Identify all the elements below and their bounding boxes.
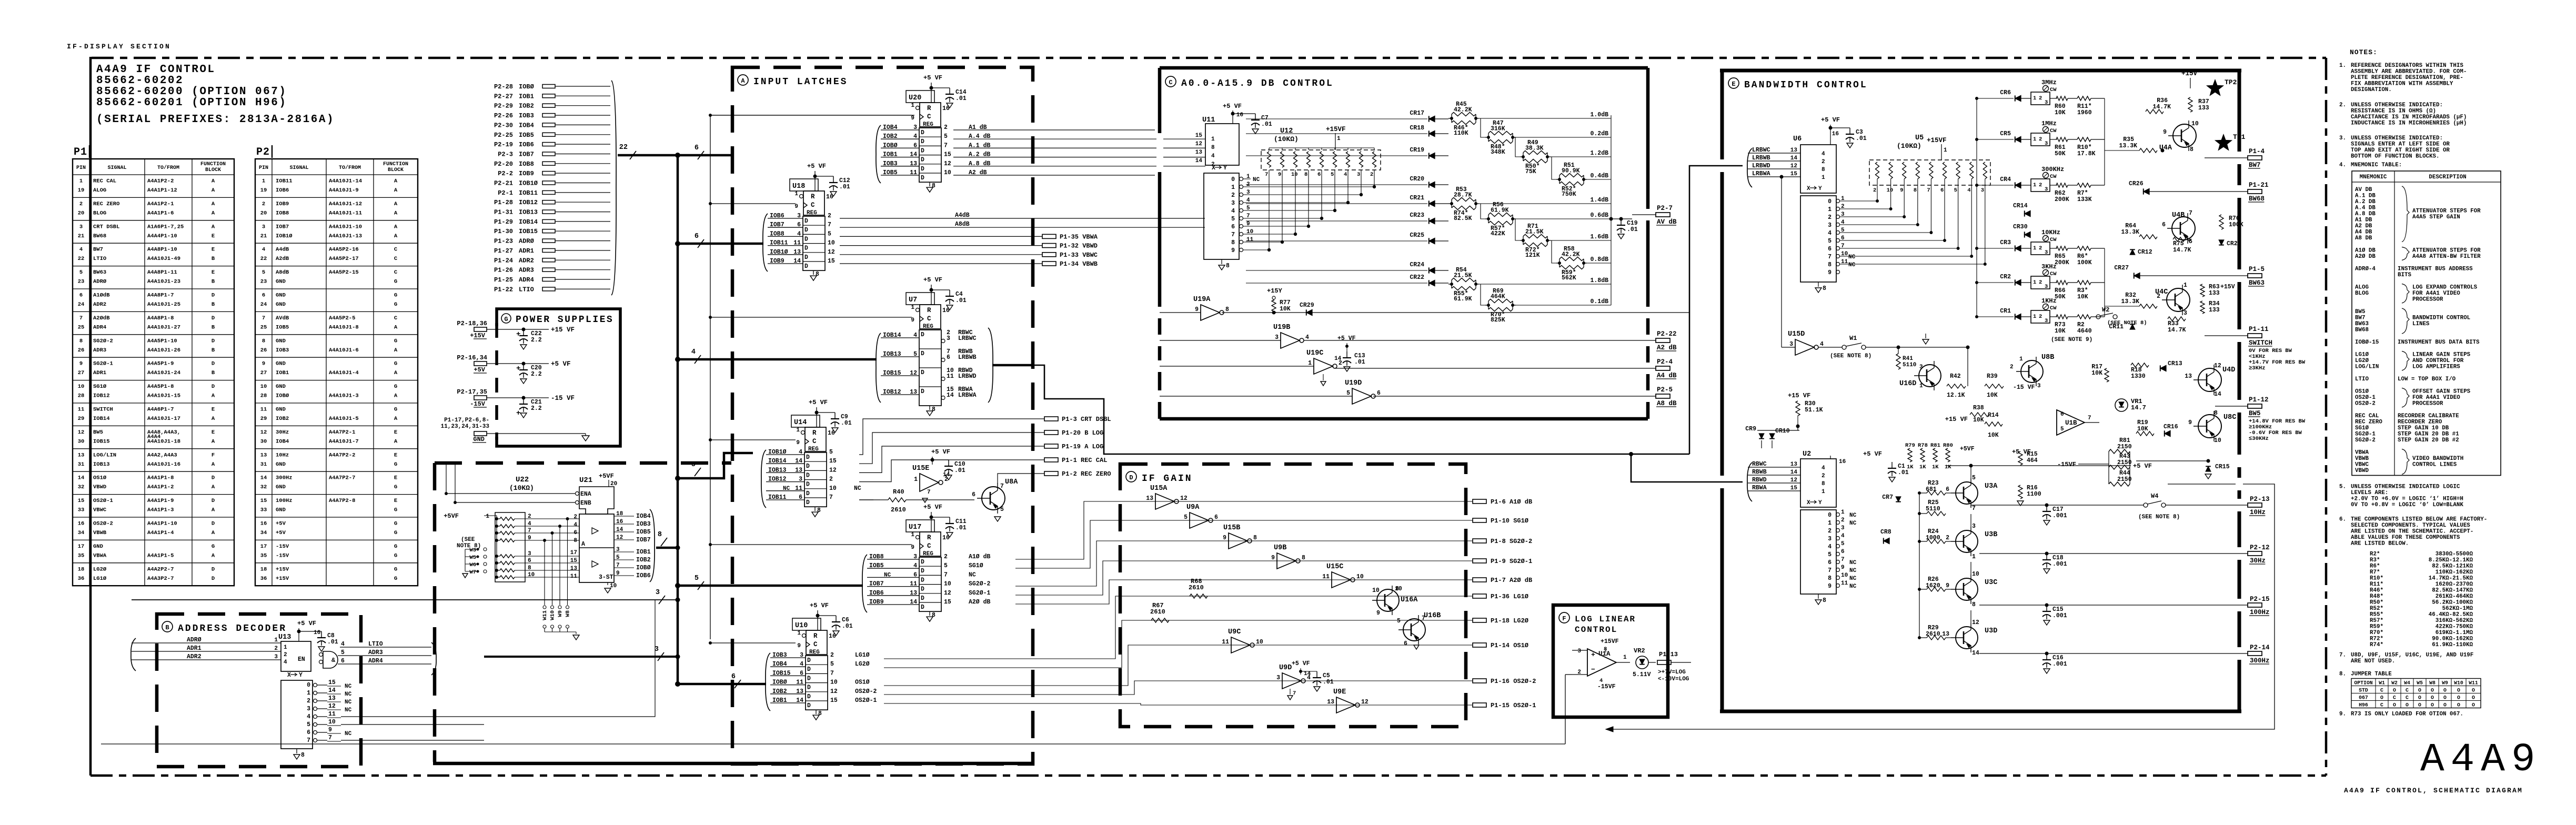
svg-text:5: 5: [1828, 551, 1832, 558]
output stub P1-20 B LOG: [1044, 430, 1058, 435]
svg-text:P2-30: P2-30: [494, 122, 513, 129]
svg-text:4: 4: [799, 449, 802, 456]
svg-text:0.2dB: 0.2dB: [1590, 130, 1608, 137]
svg-text:G: G: [394, 461, 397, 468]
svg-text:10K: 10K: [2055, 109, 2066, 116]
svg-text:0: 0: [307, 682, 310, 689]
svg-text:O: O: [2431, 688, 2434, 693]
svg-text:1.4dB: 1.4dB: [1590, 197, 1608, 204]
svg-text:IOB4: IOB4: [883, 124, 898, 131]
svg-text:R3*: R3*: [2370, 557, 2380, 564]
svg-text:5: 5: [830, 661, 834, 668]
svg-text:300KHz: 300KHz: [2041, 166, 2064, 173]
svg-text:3: 3: [1972, 523, 1976, 530]
svg-text:A4A1P1-2: A4A1P1-2: [147, 484, 174, 490]
svg-text:R55*: R55*: [2370, 612, 2383, 618]
svg-text:IOB12: IOB12: [519, 199, 538, 206]
svg-text:17: 17: [260, 544, 267, 550]
svg-text:A4A5P2-17: A4A5P2-17: [329, 256, 359, 262]
svg-text:15: 15: [78, 498, 85, 504]
svg-text:13: 13: [793, 249, 801, 256]
svg-text:U19A: U19A: [1193, 296, 1211, 304]
svg-text:U19B: U19B: [1273, 324, 1290, 331]
svg-text:P1-2 REC ZERO: P1-2 REC ZERO: [1062, 470, 1111, 478]
svg-text:1: 1: [1944, 147, 1947, 154]
svg-text:1960: 1960: [2077, 109, 2092, 116]
svg-text:7: 7: [1231, 232, 1235, 238]
svg-text:4: 4: [1344, 172, 1347, 178]
svg-text:12: 12: [260, 429, 267, 436]
svg-text:35: 35: [78, 552, 85, 559]
svg-text:VBWB: VBWB: [2355, 456, 2369, 462]
svg-text:G: G: [394, 507, 397, 514]
svg-text:11: 11: [947, 373, 954, 380]
U3 collector rails: [1970, 466, 1971, 478]
svg-text:1: 1: [2033, 314, 2036, 320]
svg-text:CR1: CR1: [2000, 308, 2011, 315]
svg-text:BW68: BW68: [2249, 195, 2265, 203]
svg-text:ARE LISTED ON THE SCHEMATIC. A: ARE LISTED ON THE SCHEMATIC. ACCEPT-: [2351, 529, 2473, 535]
svg-text:CR13: CR13: [2168, 360, 2182, 367]
svg-text:4: 4: [913, 562, 917, 569]
svg-text:5: 5: [1397, 618, 1401, 625]
svg-text:P1-27: P1-27: [494, 247, 513, 255]
svg-text:ADRØ: ADRØ: [519, 238, 534, 245]
svg-text:U20: U20: [909, 94, 921, 102]
svg-text:G: G: [394, 338, 397, 344]
svg-text:ALOG: ALOG: [2355, 285, 2369, 291]
svg-text:16: 16: [314, 630, 320, 636]
svg-text:W5: W5: [469, 555, 476, 561]
svg-text:15: 15: [944, 152, 951, 158]
function block A INPUT LATCHES dashed box: [732, 67, 1033, 764]
resistor R37: [2188, 97, 2192, 112]
svg-text:GND: GND: [276, 384, 286, 390]
svg-text:CR21: CR21: [1410, 195, 1424, 202]
svg-text:CR9: CR9: [1745, 426, 1756, 432]
svg-text:SG2Ø-1: SG2Ø-1: [2355, 431, 2376, 438]
inverter U15D: [1795, 339, 1814, 355]
svg-text:IOB12: IOB12: [93, 393, 110, 399]
svg-text:P2-19: P2-19: [494, 141, 513, 148]
svg-text:ADR4: ADR4: [368, 658, 383, 665]
svg-text:P1-15 OS2Ø-1: P1-15 OS2Ø-1: [1491, 702, 1536, 709]
svg-text:4: 4: [307, 713, 310, 720]
svg-text:U5: U5: [1915, 134, 1924, 142]
svg-text:NC: NC: [345, 691, 352, 698]
bus 22 wire: [618, 154, 678, 157]
svg-text:IOB11: IOB11: [770, 240, 788, 247]
svg-text:P1-21: P1-21: [2249, 182, 2269, 189]
svg-text:LG1Ø: LG1Ø: [2355, 352, 2369, 358]
svg-text:G: G: [394, 530, 397, 536]
svg-text:U9A: U9A: [1186, 504, 1200, 511]
svg-text:6: 6: [341, 658, 345, 665]
svg-text:Y: Y: [299, 672, 303, 679]
svg-text:G: G: [394, 552, 397, 559]
svg-text:SWITCH: SWITCH: [93, 407, 113, 413]
svg-text:3-ST: 3-ST: [599, 574, 613, 581]
section E title circle: [1728, 78, 1739, 88]
svg-text:D: D: [921, 577, 924, 583]
svg-text:6: 6: [528, 558, 531, 564]
svg-text:+15V: +15V: [2220, 284, 2235, 290]
svg-text:2610: 2610: [1150, 608, 1165, 616]
svg-text:CR7: CR7: [1882, 494, 1893, 501]
resistor R63: [2200, 284, 2205, 297]
svg-text:O: O: [2472, 695, 2475, 701]
svg-text:P1-13: P1-13: [1659, 651, 1678, 658]
svg-text:D: D: [212, 566, 215, 572]
svg-text:CR20: CR20: [1410, 176, 1424, 183]
svg-text:5: 5: [695, 575, 699, 582]
IF GAIN wire P1-10 SG1Ø: [1015, 520, 1473, 568]
svg-text:IOB11: IOB11: [276, 178, 293, 185]
svg-text:8: 8: [1395, 586, 1399, 592]
svg-text:LOG/LIN: LOG/LIN: [2355, 364, 2379, 370]
svg-text:+5VF: +5VF: [1960, 446, 1975, 452]
svg-text:IOBØ: IOBØ: [276, 393, 289, 399]
svg-text:A4A10J1-3: A4A10J1-3: [329, 393, 359, 399]
svg-text:D: D: [212, 315, 215, 321]
svg-text:P1-4: P1-4: [2249, 148, 2265, 155]
svg-text:REC CAL: REC CAL: [93, 178, 116, 185]
svg-text:BW63: BW63: [93, 269, 106, 276]
svg-text:464: 464: [2027, 457, 2038, 464]
svg-text:CW: CW: [2050, 237, 2057, 243]
svg-text:14: 14: [1304, 671, 1311, 677]
svg-text:3: 3: [1919, 364, 1923, 370]
svg-text:AV dB: AV dB: [1657, 218, 1677, 226]
inverter U9B: [1277, 553, 1296, 569]
svg-text:25: 25: [78, 324, 85, 330]
svg-text:CR5: CR5: [2000, 130, 2011, 137]
bus U21 to vertical bus 8: [656, 547, 678, 549]
latch U18 with cap C12: [790, 179, 818, 191]
svg-text:C: C: [2406, 695, 2409, 701]
svg-text:REG: REG: [923, 324, 933, 330]
svg-text:C: C: [2406, 688, 2409, 693]
svg-text:A: A: [394, 324, 398, 330]
svg-text:UNLESS OTHERWISE INDICATED:: UNLESS OTHERWISE INDICATED:: [2351, 135, 2443, 142]
svg-text:1: 1: [1623, 655, 1627, 661]
svg-text:13: 13: [1942, 631, 1949, 638]
svg-text:7: 7: [307, 737, 310, 744]
svg-text:.01: .01: [1856, 135, 1867, 142]
svg-text:IOB9: IOB9: [869, 599, 884, 606]
svg-text:IOB14: IOB14: [93, 416, 110, 422]
svg-text:A.2 DB: A.2 DB: [2355, 199, 2376, 205]
svg-text:REC ZERO: REC ZERO: [2355, 419, 2382, 426]
svg-text:IOB7: IOB7: [519, 151, 534, 158]
svg-text:BW68: BW68: [93, 233, 106, 239]
svg-text:13: 13: [1327, 699, 1334, 706]
svg-text:G: G: [394, 361, 397, 367]
svg-text:A1Ø DB: A1Ø DB: [2355, 248, 2376, 254]
svg-text:2.: 2.: [2339, 102, 2346, 108]
svg-text:P1-1 REC CAL: P1-1 REC CAL: [1062, 457, 1107, 464]
svg-text:13: 13: [910, 160, 917, 167]
svg-text:7: 7: [328, 735, 332, 741]
svg-text:133: 133: [2209, 307, 2220, 314]
svg-text:7: 7: [1841, 557, 1845, 563]
svg-text:NC: NC: [1849, 583, 1857, 590]
svg-text:31: 31: [260, 461, 267, 468]
svg-text:1: 1: [1211, 136, 1215, 143]
zener VR1: [2115, 399, 2128, 411]
svg-text:1.6dB: 1.6dB: [1590, 234, 1608, 240]
svg-text:R81: R81: [1930, 442, 1940, 449]
svg-text:OS2Ø-1: OS2Ø-1: [855, 697, 877, 704]
outer dashed border top: [92, 57, 2326, 59]
svg-text:5: 5: [1972, 475, 1976, 481]
svg-text:LRBWC: LRBWC: [1752, 147, 1770, 154]
svg-text:6: 6: [1940, 187, 1944, 194]
svg-text:14: 14: [795, 458, 802, 465]
svg-text:O: O: [2418, 695, 2421, 701]
svg-text:16: 16: [942, 105, 950, 112]
svg-text:IOB15: IOB15: [772, 670, 791, 677]
inverter U9D: [1282, 673, 1301, 689]
svg-text:1: 1: [2033, 279, 2036, 286]
svg-text:BANDWIDTH CONTROL: BANDWIDTH CONTROL: [2412, 315, 2470, 321]
svg-text:23: 23: [260, 279, 267, 285]
inverter U9E: [1336, 697, 1355, 713]
resistor network U22 resistors: [500, 517, 515, 520]
svg-text:8: 8: [1226, 263, 1230, 269]
svg-text:82.5K: 82.5K: [1454, 215, 1472, 222]
cap C19: [1611, 218, 1632, 219]
svg-text:STD: STD: [2359, 688, 2368, 693]
svg-text:+5V: +5V: [474, 366, 485, 374]
svg-text:61.9KΩ-110KΩ: 61.9KΩ-110KΩ: [2432, 642, 2473, 648]
svg-text:562K: 562K: [1562, 275, 1576, 281]
svg-text:D: D: [1129, 474, 1133, 481]
svg-text:2: 2: [828, 213, 831, 219]
svg-text:P1-30: P1-30: [494, 228, 513, 235]
svg-text:D: D: [921, 568, 924, 575]
svg-text:-15VF: -15VF: [1597, 683, 1616, 690]
resistor R16: [2018, 485, 2022, 499]
svg-text:UNLESS OTHERWISE INDICATED LOG: UNLESS OTHERWISE INDICATED LOGIC: [2351, 484, 2460, 490]
svg-text:85662-60201 (OPTION H96): 85662-60201 (OPTION H96): [96, 97, 287, 109]
svg-text:NC: NC: [1849, 568, 1857, 574]
svg-text:12: 12: [1361, 699, 1368, 706]
svg-text:G: G: [394, 384, 397, 390]
inverter U19B: [1160, 340, 1281, 341]
svg-text:3: 3: [1789, 341, 1793, 348]
svg-text:P1-33 VBWC: P1-33 VBWC: [1060, 251, 1098, 259]
svg-text:P1-14 OS1Ø: P1-14 OS1Ø: [1491, 642, 1528, 649]
svg-text:9: 9: [79, 361, 83, 367]
svg-text:4: 4: [913, 133, 917, 140]
opamp U1B: [2057, 410, 2085, 435]
svg-text:D: D: [807, 693, 811, 700]
svg-text:3: 3: [1828, 536, 1832, 542]
svg-text:U15E: U15E: [912, 465, 929, 472]
svg-text:−: −: [1591, 666, 1595, 673]
svg-text:U3D: U3D: [1985, 627, 1997, 635]
svg-text:W11: W11: [542, 610, 548, 620]
svg-text:FUNCTION: FUNCTION: [200, 162, 226, 167]
svg-text:13.3K: 13.3K: [2119, 143, 2137, 149]
svg-text:8: 8: [1914, 187, 1917, 194]
svg-text:SG1Ø: SG1Ø: [969, 562, 983, 569]
svg-text:ADR1: ADR1: [519, 247, 534, 255]
svg-text:IOB14: IOB14: [883, 332, 901, 339]
svg-text:1: 1: [2033, 182, 2036, 188]
svg-text:4: 4: [800, 661, 803, 668]
svg-text:7: 7: [1265, 172, 1268, 178]
svg-text:SG2Ø-2: SG2Ø-2: [969, 581, 991, 588]
svg-text:A4A10J1-13: A4A10J1-13: [329, 233, 362, 239]
svg-text:11: 11: [328, 711, 336, 718]
svg-text:7: 7: [1828, 567, 1832, 574]
svg-text:P1-31: P1-31: [494, 209, 513, 216]
svg-text:P1-10 SG1Ø: P1-10 SG1Ø: [1491, 517, 1528, 525]
svg-text:16: 16: [1839, 459, 1846, 465]
clock stub wire y1035: [710, 544, 912, 545]
svg-text:A8dB: A8dB: [955, 221, 970, 228]
svg-text:2: 2: [284, 652, 287, 658]
svg-text:A: A: [394, 201, 398, 207]
svg-text:C: C: [927, 315, 931, 323]
latch U10 with cap C6: [792, 618, 821, 630]
svg-text:6: 6: [800, 670, 803, 677]
U6 row extension wires: [1840, 200, 1877, 202]
svg-text:G: G: [504, 316, 508, 323]
svg-text:A4A7P2-8: A4A7P2-8: [329, 498, 355, 504]
svg-text:3: 3: [2183, 310, 2187, 317]
svg-text:0: 0: [1828, 198, 1832, 205]
svg-text:A4A10J1-5: A4A10J1-5: [329, 416, 359, 422]
svg-text:9: 9: [1946, 582, 1949, 589]
svg-text:7: 7: [616, 562, 620, 569]
svg-text:W2: W2: [2391, 680, 2398, 686]
svg-text:P2-22: P2-22: [1657, 330, 1677, 338]
svg-text:18: 18: [78, 566, 85, 572]
svg-text:8: 8: [1823, 597, 1826, 604]
transistor U4D: [2198, 368, 2221, 391]
svg-text:CR19: CR19: [1410, 147, 1424, 154]
svg-text:20: 20: [78, 210, 85, 216]
svg-text:6: 6: [913, 571, 917, 578]
svg-text:7: 7: [944, 142, 948, 149]
svg-text:IOB6: IOB6: [636, 572, 651, 579]
svg-text:W1: W1: [1849, 335, 1857, 342]
svg-text:46.4KΩ-82.5KΩ: 46.4KΩ-82.5KΩ: [2429, 612, 2473, 618]
svg-text:(SEE NOTE 9): (SEE NOTE 9): [2051, 337, 2092, 343]
svg-text:2: 2: [1231, 192, 1235, 199]
wire E left vertical riser: [1689, 166, 1743, 454]
svg-text:DESIGNATION.: DESIGNATION.: [2351, 87, 2392, 93]
svg-text:5: 5: [1231, 216, 1235, 223]
svg-text:+5 VF: +5 VF: [1863, 450, 1882, 458]
svg-text:21: 21: [78, 233, 85, 239]
svg-text:O: O: [2406, 702, 2409, 708]
svg-text:348K: 348K: [1491, 149, 1505, 156]
svg-text:.001: .001: [2052, 661, 2067, 668]
svg-text:13: 13: [328, 695, 336, 702]
svg-text:.01: .01: [1323, 679, 1334, 686]
svg-text:10: 10: [2214, 437, 2221, 444]
svg-text:IOB11: IOB11: [519, 189, 538, 197]
svg-text:23: 23: [78, 279, 85, 285]
svg-text:D: D: [921, 369, 924, 376]
svg-text:5: 5: [262, 269, 265, 276]
svg-text:CR15: CR15: [2215, 464, 2230, 470]
svg-text:27: 27: [78, 370, 85, 376]
svg-text:P2-14: P2-14: [2250, 644, 2270, 651]
svg-text:2: 2: [1841, 517, 1845, 524]
svg-text:ADR2: ADR2: [93, 301, 106, 308]
feedback wire left segment: [101, 743, 1565, 744]
svg-text:R70*: R70*: [2370, 630, 2383, 636]
svg-text:8: 8: [1231, 239, 1235, 246]
svg-text:IOB2: IOB2: [772, 688, 787, 695]
svg-text:16: 16: [78, 521, 85, 527]
connector P2-4 A4 dB: [1335, 368, 1656, 369]
svg-text:CRT DSBL: CRT DSBL: [93, 224, 119, 230]
svg-text:CR26: CR26: [2129, 180, 2144, 187]
svg-text:R57*: R57*: [2370, 618, 2383, 624]
svg-text:(SEE NOTE 8): (SEE NOTE 8): [1830, 353, 1871, 359]
svg-text:CR30: CR30: [2013, 224, 2028, 230]
svg-text:A: A: [212, 187, 215, 194]
svg-text:14.7KΩ-21.5KΩ: 14.7KΩ-21.5KΩ: [2429, 576, 2473, 582]
svg-text:D: D: [806, 454, 810, 461]
address decoder AND gate U13B with LTIO ADR3 ADR4: [323, 651, 338, 668]
svg-text:1: 1: [1828, 206, 1832, 213]
svg-text:+5 VF: +5 VF: [923, 276, 942, 284]
svg-text:P1-36 LG1Ø: P1-36 LG1Ø: [1491, 593, 1528, 600]
svg-text:0.8dB: 0.8dB: [1590, 256, 1608, 263]
svg-text:8: 8: [1225, 306, 1229, 313]
svg-text:A4dB: A4dB: [955, 212, 970, 219]
svg-text:SG2Ø-1: SG2Ø-1: [93, 361, 113, 367]
svg-text:D: D: [921, 350, 924, 357]
svg-text:IOB5: IOB5: [276, 324, 289, 330]
svg-text:NOTES:: NOTES:: [2350, 48, 2378, 56]
svg-text:2: 2: [262, 201, 265, 207]
svg-text:D: D: [807, 702, 811, 709]
svg-text:CR17: CR17: [1410, 110, 1424, 117]
section A title circle: [738, 75, 748, 85]
svg-text:+5 VF: +5 VF: [551, 360, 571, 368]
svg-text:+15Y: +15Y: [1267, 287, 1283, 295]
IF GAIN wire P1-14 OS1Ø: [884, 645, 1473, 686]
svg-text:IOB6: IOB6: [869, 590, 884, 597]
svg-text:8: 8: [1828, 575, 1832, 582]
svg-text:A8 dB: A8 dB: [1657, 400, 1677, 407]
svg-text:A4A10J1-23: A4A10J1-23: [147, 279, 180, 285]
svg-text:3: 3: [2045, 140, 2048, 147]
power supplies box G frame: [497, 309, 620, 446]
svg-text:14: 14: [1972, 650, 1979, 657]
bus 22 slash label: [630, 151, 636, 159]
pot row output vertical right: [2104, 98, 2105, 185]
svg-text:G: G: [394, 576, 397, 582]
output P2-15 100Hz with cap C15: [1979, 605, 2248, 606]
svg-text:E: E: [394, 429, 397, 436]
inverter U19A: [1160, 312, 1201, 313]
svg-text:0: 0: [1828, 512, 1832, 519]
svg-text:IOB1Ø: IOB1Ø: [276, 233, 293, 239]
svg-text:1: 1: [79, 178, 83, 185]
svg-text:ARE NOT USED.: ARE NOT USED.: [2351, 658, 2395, 665]
svg-text:RESISTANCE IS IN OHMS (Ω): RESISTANCE IS IN OHMS (Ω): [2351, 108, 2436, 115]
svg-text:D: D: [921, 559, 924, 566]
